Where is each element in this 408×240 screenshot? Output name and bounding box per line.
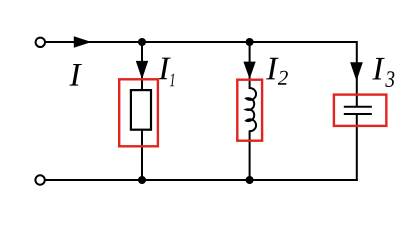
wire right vertical (capacitor branch) <box>356 41 358 106</box>
label I <box>69 64 81 86</box>
capacitor C top plate <box>344 106 372 108</box>
node top L junction <box>246 38 254 46</box>
wire inductor branch lower <box>249 130 251 180</box>
wire resistor branch lower <box>141 130 143 181</box>
current arrow I3 <box>350 62 363 81</box>
node bottom L junction <box>246 176 254 184</box>
wire resistor branch upper <box>141 42 143 91</box>
label I1 <box>158 58 170 80</box>
terminal top-left <box>36 38 45 47</box>
inductor L coil <box>246 88 256 131</box>
node bottom R junction <box>138 176 146 184</box>
label I3 <box>372 58 384 80</box>
current arrow I1 <box>136 61 148 79</box>
current source arrow I <box>74 36 92 47</box>
wire inductor branch upper <box>249 42 251 89</box>
node top R junction <box>138 38 146 46</box>
current arrow I2 <box>243 62 255 79</box>
highlight box capacitor <box>334 95 386 126</box>
terminal bottom-left <box>35 175 44 184</box>
highlight box resistor <box>119 79 158 146</box>
wire right vertical below capacitor <box>356 115 358 182</box>
label I2 <box>266 58 278 80</box>
wire bottom rail <box>46 179 358 181</box>
highlight box inductor <box>237 80 262 141</box>
capacitor C bottom plate <box>344 113 372 115</box>
resistor R <box>131 90 151 130</box>
wire top rail <box>46 41 357 43</box>
